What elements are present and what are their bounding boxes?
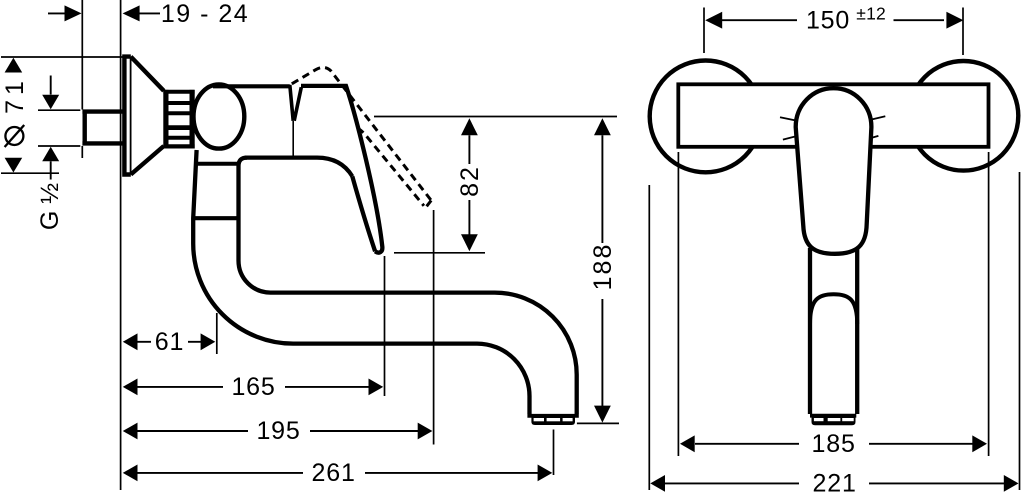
dashed raised lever tip bbox=[426, 200, 432, 207]
aerator side view bbox=[531, 417, 575, 425]
union left edge and outer spout curve bbox=[193, 150, 529, 414]
extension line wall-depth left bbox=[81, 0, 83, 158]
dimension 185 bbox=[695, 443, 973, 445]
arrow diameter down bbox=[5, 158, 23, 173]
body bottom line with corner into blade bbox=[245, 158, 352, 177]
lever notch wedge bbox=[290, 85, 302, 121]
extension lines 185 bbox=[678, 152, 988, 456]
svg-text:±12: ±12 bbox=[856, 3, 886, 23]
union separation line upper bbox=[196, 162, 238, 166]
extension line 165 bbox=[384, 256, 386, 396]
extension line 195 bbox=[433, 210, 435, 445]
svg-text:185: 185 bbox=[812, 430, 856, 458]
G half arrow up bbox=[42, 147, 59, 162]
dimension 195 bbox=[138, 430, 419, 432]
body top line bbox=[213, 84, 290, 88]
handle tick marks bbox=[780, 116, 885, 139]
dimension 19-24 line tails bbox=[48, 12, 160, 14]
spout outlet bottom line side view bbox=[527, 414, 578, 418]
svg-text:61: 61 bbox=[155, 328, 184, 356]
escutcheon flange inner line bbox=[130, 58, 132, 173]
svg-text:G ½: G ½ bbox=[36, 183, 64, 230]
svg-text:19 - 24: 19 - 24 bbox=[161, 0, 249, 28]
diameter symbol bbox=[5, 127, 23, 145]
extension lines 221 bbox=[649, 172, 1019, 490]
G half dimension stem upper bbox=[50, 76, 52, 95]
svg-text:71: 71 bbox=[1, 76, 29, 114]
right view outlet bottom line bbox=[810, 414, 856, 418]
extension line 261 bbox=[553, 430, 555, 476]
arrow diameter up bbox=[5, 58, 23, 73]
body bottom left corner into spout inner edge bbox=[239, 158, 577, 414]
G half dimension stem lower bbox=[50, 161, 52, 179]
cartridge knob ellipse bbox=[194, 84, 245, 148]
dimension 19-24 arrow left bbox=[65, 5, 82, 21]
right view escutcheon circle left bbox=[650, 61, 762, 173]
G half arrow down bbox=[42, 95, 59, 110]
dimension 165 bbox=[138, 386, 370, 388]
dimension 261 bbox=[138, 472, 539, 474]
extension line diameter bottom bbox=[1, 172, 59, 174]
right view body bar bbox=[678, 84, 988, 147]
escutcheon flange and cone bbox=[124, 57, 163, 175]
union separation line lower bbox=[193, 216, 240, 220]
wall line bbox=[120, 0, 122, 490]
svg-text:221: 221 bbox=[813, 470, 857, 497]
right view handle capsule bbox=[796, 88, 872, 254]
extension line 188 bottom bbox=[577, 422, 619, 424]
dashed raised lever inner edge bbox=[358, 128, 424, 206]
inlet nipple bbox=[82, 112, 122, 144]
extension line diameter top bbox=[1, 56, 123, 58]
dashed raised lever top bbox=[292, 67, 431, 200]
dimension 82 bbox=[468, 135, 470, 237]
dimension 221 bbox=[664, 482, 1004, 484]
notch thin line bbox=[292, 121, 294, 157]
handle top and blade right edge bbox=[301, 86, 382, 253]
extension lines 150 bbox=[704, 8, 963, 56]
threaded connector bbox=[163, 90, 168, 149]
G half extension top bbox=[38, 109, 80, 111]
svg-text:261: 261 bbox=[312, 459, 356, 487]
svg-text:165: 165 bbox=[231, 373, 275, 401]
svg-text:188: 188 bbox=[589, 243, 617, 291]
right view escutcheon circle right bbox=[909, 61, 1019, 171]
dimension 61 bbox=[138, 341, 202, 343]
dimension 150 +-12 bbox=[722, 19, 944, 21]
blade left edge bbox=[352, 176, 375, 251]
right view spout tube bbox=[810, 248, 857, 414]
svg-text:82: 82 bbox=[456, 165, 484, 197]
dimension 188 bbox=[601, 135, 603, 406]
extension line 82/188 top bbox=[374, 116, 617, 118]
aerator front view bbox=[812, 417, 856, 425]
extension line 61 bbox=[216, 313, 218, 354]
svg-text:195: 195 bbox=[256, 417, 300, 445]
extension line 82 bottom bbox=[394, 252, 485, 254]
svg-text:150: 150 bbox=[806, 7, 850, 35]
dimension 19-24 arrow right bbox=[123, 5, 140, 21]
G half extension bottom bbox=[38, 145, 80, 147]
right view spout bend arc bbox=[810, 294, 857, 324]
